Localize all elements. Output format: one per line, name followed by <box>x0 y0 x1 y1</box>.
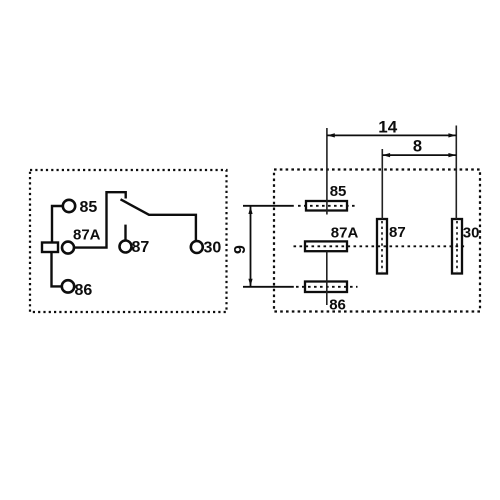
label 30 (left box) <box>204 240 222 257</box>
label 87 (right box) <box>389 224 406 241</box>
centerline through 87A row crossing pins 87 and 30 <box>294 245 466 247</box>
extension line through pin 85 <box>326 128 328 215</box>
right pin-layout box (dashed border) <box>274 170 480 312</box>
svg-text:85: 85 <box>80 199 98 216</box>
dimension line 8 <box>382 153 456 157</box>
left schematic box (dotted border) <box>30 170 227 312</box>
svg-text:87: 87 <box>389 224 406 241</box>
dimension label 14 <box>378 117 397 136</box>
svg-text:85: 85 <box>330 183 347 200</box>
extension line between pin 87A and pin 86 <box>326 252 328 306</box>
label 86 (right box) <box>329 296 346 313</box>
label 86 (left box) <box>75 282 93 299</box>
svg-text:86: 86 <box>329 296 346 313</box>
coil K1 <box>42 243 58 253</box>
svg-text:87A: 87A <box>331 224 359 241</box>
extension line above pin 87 <box>381 149 383 219</box>
wire from 87A up to fixed contact <box>74 192 126 247</box>
terminal circle 87A <box>62 242 74 254</box>
terminal circle 30 <box>191 241 203 253</box>
dimension line 14 <box>327 133 456 137</box>
pin blade 30 <box>452 219 462 274</box>
svg-text:30: 30 <box>204 240 222 257</box>
wire from coil down to terminal 86 <box>52 252 62 286</box>
dimension label 9 (rotated) <box>232 245 249 254</box>
svg-text:8: 8 <box>413 137 422 155</box>
label 85 (left box) <box>80 199 98 216</box>
label 30 (right box) <box>463 224 480 241</box>
label 87 (left box) <box>132 239 150 256</box>
svg-text:87: 87 <box>132 239 150 256</box>
pin blade 87A <box>305 241 347 251</box>
pin blade 87 <box>377 219 387 274</box>
svg-text:86: 86 <box>75 282 93 299</box>
pin blade 85 <box>298 201 357 211</box>
svg-text:30: 30 <box>463 224 480 241</box>
pin blade 86 <box>296 282 358 293</box>
dimension line 9 <box>248 206 252 286</box>
extension line above pin 30 <box>455 126 457 220</box>
dimension 9 extension tick bottom <box>243 286 294 288</box>
svg-text:9: 9 <box>232 245 249 254</box>
terminal circle 86 <box>62 280 74 292</box>
label 87A (right box) <box>331 224 359 241</box>
label 87A (left box) <box>73 227 101 244</box>
wire from terminal 85 down to coil <box>52 206 63 243</box>
dimension 9 extension tick top <box>243 205 294 207</box>
svg-text:87A: 87A <box>73 227 101 244</box>
dimension label 8 <box>413 137 422 155</box>
contact stub of terminal 87 <box>124 225 126 241</box>
terminal circle 87 <box>120 241 132 253</box>
label 85 (right box) <box>330 183 347 200</box>
switch arm to terminal 30 <box>121 199 196 241</box>
terminal circle 85 <box>63 200 75 212</box>
svg-text:14: 14 <box>378 117 397 136</box>
